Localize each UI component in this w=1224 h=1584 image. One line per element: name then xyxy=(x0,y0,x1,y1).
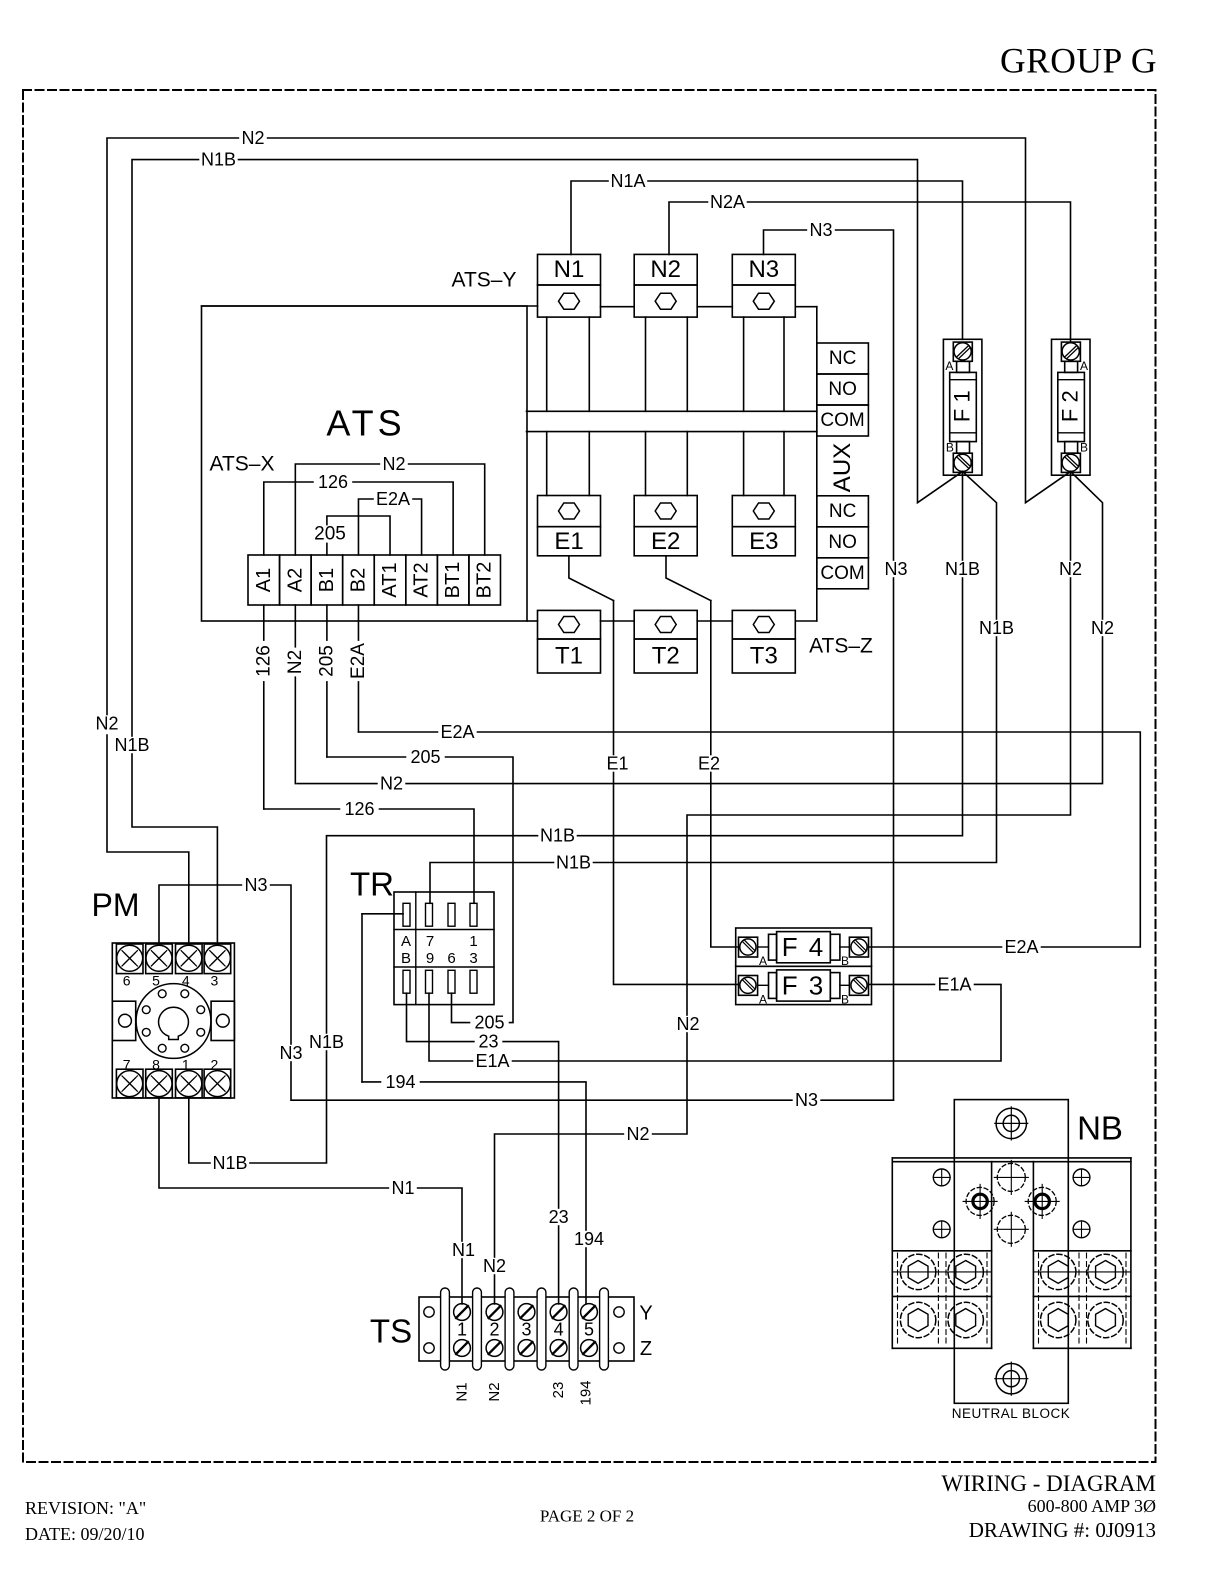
wire E1 from switch arm to F3-A xyxy=(604,601,739,985)
svg-text:T2: T2 xyxy=(652,643,680,670)
PM socket outline xyxy=(112,943,234,1098)
svg-text:194: 194 xyxy=(578,1380,595,1405)
wire E2A below B2 xyxy=(348,605,369,732)
NB cable lugs xyxy=(892,1253,1131,1346)
svg-text:126: 126 xyxy=(253,645,274,677)
svg-text:N3: N3 xyxy=(279,1043,302,1063)
svg-text:NO: NO xyxy=(828,532,857,553)
svg-text:N2: N2 xyxy=(626,1124,649,1144)
wire N3 top xyxy=(764,220,910,1100)
svg-text:N3: N3 xyxy=(884,559,907,579)
svg-text:E1: E1 xyxy=(606,754,628,774)
svg-text:E1: E1 xyxy=(554,528,583,555)
svg-text:3: 3 xyxy=(521,1320,531,1340)
svg-text:B: B xyxy=(1080,441,1088,455)
svg-text:B1: B1 xyxy=(316,568,338,592)
wire N2 to PM pin 4 xyxy=(107,735,189,943)
contactor pole T2 xyxy=(634,610,697,673)
svg-text:N1B: N1B xyxy=(201,150,236,170)
pole leg wires between N row, bus band and E row xyxy=(547,317,784,495)
svg-text:NC: NC xyxy=(829,501,856,522)
svg-text:N2: N2 xyxy=(483,1256,506,1276)
svg-text:WIRING - DIAGRAM: WIRING - DIAGRAM xyxy=(941,1471,1156,1496)
PM top terminal screws 6 5 4 3 xyxy=(116,944,230,989)
svg-text:A1: A1 xyxy=(253,568,275,592)
svg-text:E2A: E2A xyxy=(348,643,369,679)
svg-text:E2A: E2A xyxy=(1004,937,1038,957)
svg-text:B: B xyxy=(946,441,954,455)
wire N1B from F1-B down to PM pin 1 xyxy=(189,472,982,1174)
fuse F4 xyxy=(736,928,872,968)
wire N2 below A2 xyxy=(285,605,306,784)
svg-text:205: 205 xyxy=(410,747,440,767)
contactor pole E1 xyxy=(538,496,601,556)
svg-text:1: 1 xyxy=(457,1320,467,1340)
svg-text:23: 23 xyxy=(549,1207,569,1227)
svg-text:N2: N2 xyxy=(676,1014,699,1034)
svg-text:7: 7 xyxy=(426,933,434,950)
svg-text:GROUP G: GROUP G xyxy=(1000,41,1157,81)
svg-text:A: A xyxy=(1080,359,1088,373)
svg-text:205: 205 xyxy=(314,524,346,545)
wire ATS-Y bus at N-pole row xyxy=(202,305,817,308)
svg-text:E2A: E2A xyxy=(376,489,410,509)
switch arm from E1 xyxy=(569,556,614,601)
ATS-X terminal strip A1 A2 B1 B2 AT1 AT2 BT1 BT2 xyxy=(248,555,500,605)
NB bottom stud xyxy=(995,1362,1028,1395)
svg-text:Z: Z xyxy=(640,1338,652,1360)
ATS label xyxy=(326,403,405,444)
svg-text:N3: N3 xyxy=(795,1090,818,1110)
svg-text:N2: N2 xyxy=(1091,618,1114,638)
fuse F3 xyxy=(736,966,872,1006)
wire N2 from F2-B to TS terminal 2 xyxy=(481,472,1085,1305)
svg-text:N1B: N1B xyxy=(114,735,149,755)
NB center marks xyxy=(963,1160,1059,1246)
contactor pole E3 xyxy=(732,496,795,556)
TS row labels Y and Z xyxy=(639,1303,652,1361)
svg-text:PM: PM xyxy=(92,887,140,923)
svg-text:3: 3 xyxy=(469,950,477,967)
svg-text:194: 194 xyxy=(385,1072,415,1092)
svg-text:ATS–Y: ATS–Y xyxy=(452,269,517,292)
svg-text:N1B: N1B xyxy=(979,618,1014,638)
wire E2A (B2 to AT2 inside ATS) xyxy=(358,489,421,555)
svg-text:23: 23 xyxy=(478,1032,498,1052)
svg-text:N1A: N1A xyxy=(610,171,645,191)
svg-text:126: 126 xyxy=(318,472,348,492)
svg-text:NEUTRAL BLOCK: NEUTRAL BLOCK xyxy=(952,1406,1071,1421)
wire 194 from TR pin A to TS terminal 5 xyxy=(362,914,608,1304)
svg-text:N1: N1 xyxy=(554,256,585,283)
NEUTRAL BLOCK caption xyxy=(952,1406,1071,1421)
contactor pole N3 xyxy=(732,254,795,317)
contactor pole T1 xyxy=(538,610,601,673)
svg-text:E1A: E1A xyxy=(937,974,971,994)
wire N1B top rail xyxy=(113,150,963,755)
svg-text:BT2: BT2 xyxy=(474,562,496,599)
wire 126 below A1 xyxy=(253,605,274,809)
svg-text:DRAWING #: 0J0913: DRAWING #: 0J0913 xyxy=(969,1518,1156,1542)
svg-text:NB: NB xyxy=(1077,1110,1123,1147)
PM label xyxy=(92,887,140,923)
TS bottom wire tags xyxy=(454,1380,595,1405)
svg-text:B2: B2 xyxy=(347,568,369,592)
svg-text:E2: E2 xyxy=(651,528,680,555)
svg-text:23: 23 xyxy=(550,1382,567,1399)
wire E2 from switch arm to F4-A xyxy=(695,601,738,947)
svg-text:126: 126 xyxy=(344,799,374,819)
wire E2A from B2 to F4-B xyxy=(358,722,1140,957)
wire N1A xyxy=(571,171,963,339)
svg-text:N3: N3 xyxy=(244,875,267,895)
title GROUP G xyxy=(1000,41,1157,81)
NB label xyxy=(1077,1110,1123,1147)
svg-text:1: 1 xyxy=(469,933,477,950)
svg-text:E3: E3 xyxy=(749,528,778,555)
wire 205 below B1 xyxy=(316,605,337,757)
footer titles xyxy=(25,1471,1156,1544)
svg-text:N1B: N1B xyxy=(556,853,591,873)
svg-text:ATS–Z: ATS–Z xyxy=(809,635,873,658)
svg-text:N3: N3 xyxy=(748,256,779,283)
svg-text:194: 194 xyxy=(574,1229,604,1249)
wire N2 (A2 to BT2 inside ATS) xyxy=(295,454,484,555)
svg-text:N1B: N1B xyxy=(540,826,575,846)
svg-text:2: 2 xyxy=(489,1320,499,1340)
AUX label xyxy=(829,443,856,492)
svg-text:TR: TR xyxy=(350,866,394,903)
svg-text:F 1: F 1 xyxy=(950,390,975,422)
svg-text:4: 4 xyxy=(554,1320,564,1340)
svg-text:N1: N1 xyxy=(391,1178,414,1198)
svg-text:N2: N2 xyxy=(285,650,306,674)
svg-text:A: A xyxy=(945,359,953,373)
ATS enclosure box xyxy=(202,306,528,621)
svg-text:N1: N1 xyxy=(454,1382,471,1401)
horizontal bus band xyxy=(527,411,817,431)
wire N2A xyxy=(669,192,1071,342)
svg-text:E2A: E2A xyxy=(440,722,474,742)
svg-text:A: A xyxy=(759,992,767,1006)
TR socket box xyxy=(394,892,494,1005)
svg-text:F 2: F 2 xyxy=(1058,390,1083,422)
svg-text:F 4: F 4 xyxy=(782,932,826,962)
svg-text:NC: NC xyxy=(829,348,856,369)
svg-text:B: B xyxy=(401,950,411,967)
svg-text:N2: N2 xyxy=(95,714,118,734)
svg-text:TS: TS xyxy=(370,1313,412,1350)
fuse F1 xyxy=(943,339,982,475)
svg-text:5: 5 xyxy=(584,1320,594,1340)
svg-text:REVISION: "A": REVISION: "A" xyxy=(25,1498,146,1518)
fuse F2 xyxy=(1052,339,1091,475)
ATS-Z label xyxy=(809,635,873,658)
wire N1B from F1-B to TR pin 7 xyxy=(430,472,1016,904)
contactor pole N2 xyxy=(634,254,697,317)
AUX contact block upper NC NO COM xyxy=(817,343,869,436)
contactor pole T3 xyxy=(732,610,795,673)
svg-text:N2A: N2A xyxy=(710,192,745,212)
svg-text:N1: N1 xyxy=(452,1240,475,1260)
svg-text:N2: N2 xyxy=(486,1382,503,1401)
svg-text:N2: N2 xyxy=(1059,559,1082,579)
wire E1A from F3-B to TR pin 9 xyxy=(429,974,1001,1071)
svg-text:N2: N2 xyxy=(380,774,403,794)
svg-text:205: 205 xyxy=(474,1013,504,1033)
wire 205 from B1 to TR pin 6 xyxy=(327,747,513,1033)
wire N3 from PM pin 5 to N3 rail xyxy=(159,875,894,1110)
svg-text:ATS: ATS xyxy=(326,403,405,444)
svg-text:N1B: N1B xyxy=(309,1032,344,1052)
svg-text:F 3: F 3 xyxy=(782,970,826,1000)
NB top stud xyxy=(995,1107,1028,1140)
contactor pole N1 xyxy=(538,254,601,317)
PM center octal socket xyxy=(112,984,234,1059)
switch arm from E2 xyxy=(666,556,711,601)
wire 23 from TR pin B to TS terminal 4 xyxy=(407,993,573,1304)
wire 126 (A1 to BT1 inside ATS) xyxy=(264,472,453,555)
svg-text:Y: Y xyxy=(639,1303,652,1325)
svg-text:E2: E2 xyxy=(698,754,720,774)
wire ATS-Z bus at T-pole row xyxy=(527,620,817,622)
svg-text:COM: COM xyxy=(820,410,864,431)
ATS-X label xyxy=(210,453,275,476)
svg-text:PAGE 2 OF 2: PAGE 2 OF 2 xyxy=(540,1507,634,1526)
svg-text:6: 6 xyxy=(123,973,131,989)
svg-text:9: 9 xyxy=(426,950,434,967)
AUX contact block lower NC NO COM xyxy=(817,496,869,589)
svg-text:AUX: AUX xyxy=(829,443,856,492)
svg-text:600-800 AMP 3Ø: 600-800 AMP 3Ø xyxy=(1028,1496,1156,1516)
svg-text:N2: N2 xyxy=(241,128,264,148)
ATS-Y label xyxy=(452,269,517,292)
svg-text:N3: N3 xyxy=(809,220,832,240)
svg-text:N2: N2 xyxy=(382,454,405,474)
svg-text:A2: A2 xyxy=(284,568,306,592)
svg-text:6: 6 xyxy=(447,950,455,967)
TS label xyxy=(370,1313,412,1350)
svg-text:E1A: E1A xyxy=(475,1051,509,1071)
svg-text:AT2: AT2 xyxy=(411,562,433,597)
svg-text:N1B: N1B xyxy=(945,559,980,579)
wire N2 from F2-B to rail junction at A2 xyxy=(297,472,1116,794)
svg-text:DATE: 09/20/10: DATE: 09/20/10 xyxy=(25,1524,145,1544)
svg-text:COM: COM xyxy=(820,563,864,584)
svg-text:205: 205 xyxy=(316,645,337,677)
svg-text:N2: N2 xyxy=(650,256,681,283)
svg-text:N1B: N1B xyxy=(212,1153,247,1173)
svg-text:AT1: AT1 xyxy=(379,562,401,597)
svg-text:B: B xyxy=(841,992,849,1006)
svg-text:A: A xyxy=(401,933,411,950)
vertical bus right of poles xyxy=(816,307,818,621)
svg-text:BT1: BT1 xyxy=(442,562,464,599)
svg-text:T3: T3 xyxy=(750,643,778,670)
wire 205 (B1 to AT1 inside ATS) xyxy=(310,516,390,555)
wire N2 top rail xyxy=(93,128,1070,734)
wire N1B to PM pin 3 xyxy=(132,754,217,943)
svg-text:ATS–X: ATS–X xyxy=(210,453,275,476)
svg-text:NO: NO xyxy=(828,379,857,400)
wire N1 from PM pin 8 to TS terminal 1 xyxy=(159,1098,477,1304)
TS terminal strip body xyxy=(419,1288,634,1370)
NB neutral block body xyxy=(892,1100,1131,1404)
contactor pole E2 xyxy=(634,496,697,556)
TR label xyxy=(350,866,394,903)
wire 126 from A1 to TR pin 1 xyxy=(264,799,474,903)
svg-text:3: 3 xyxy=(211,973,219,989)
PM bottom terminal screws 7 8 1 2 xyxy=(116,1057,230,1098)
NB wing mounting holes xyxy=(933,1169,1090,1238)
svg-text:T1: T1 xyxy=(555,643,583,670)
